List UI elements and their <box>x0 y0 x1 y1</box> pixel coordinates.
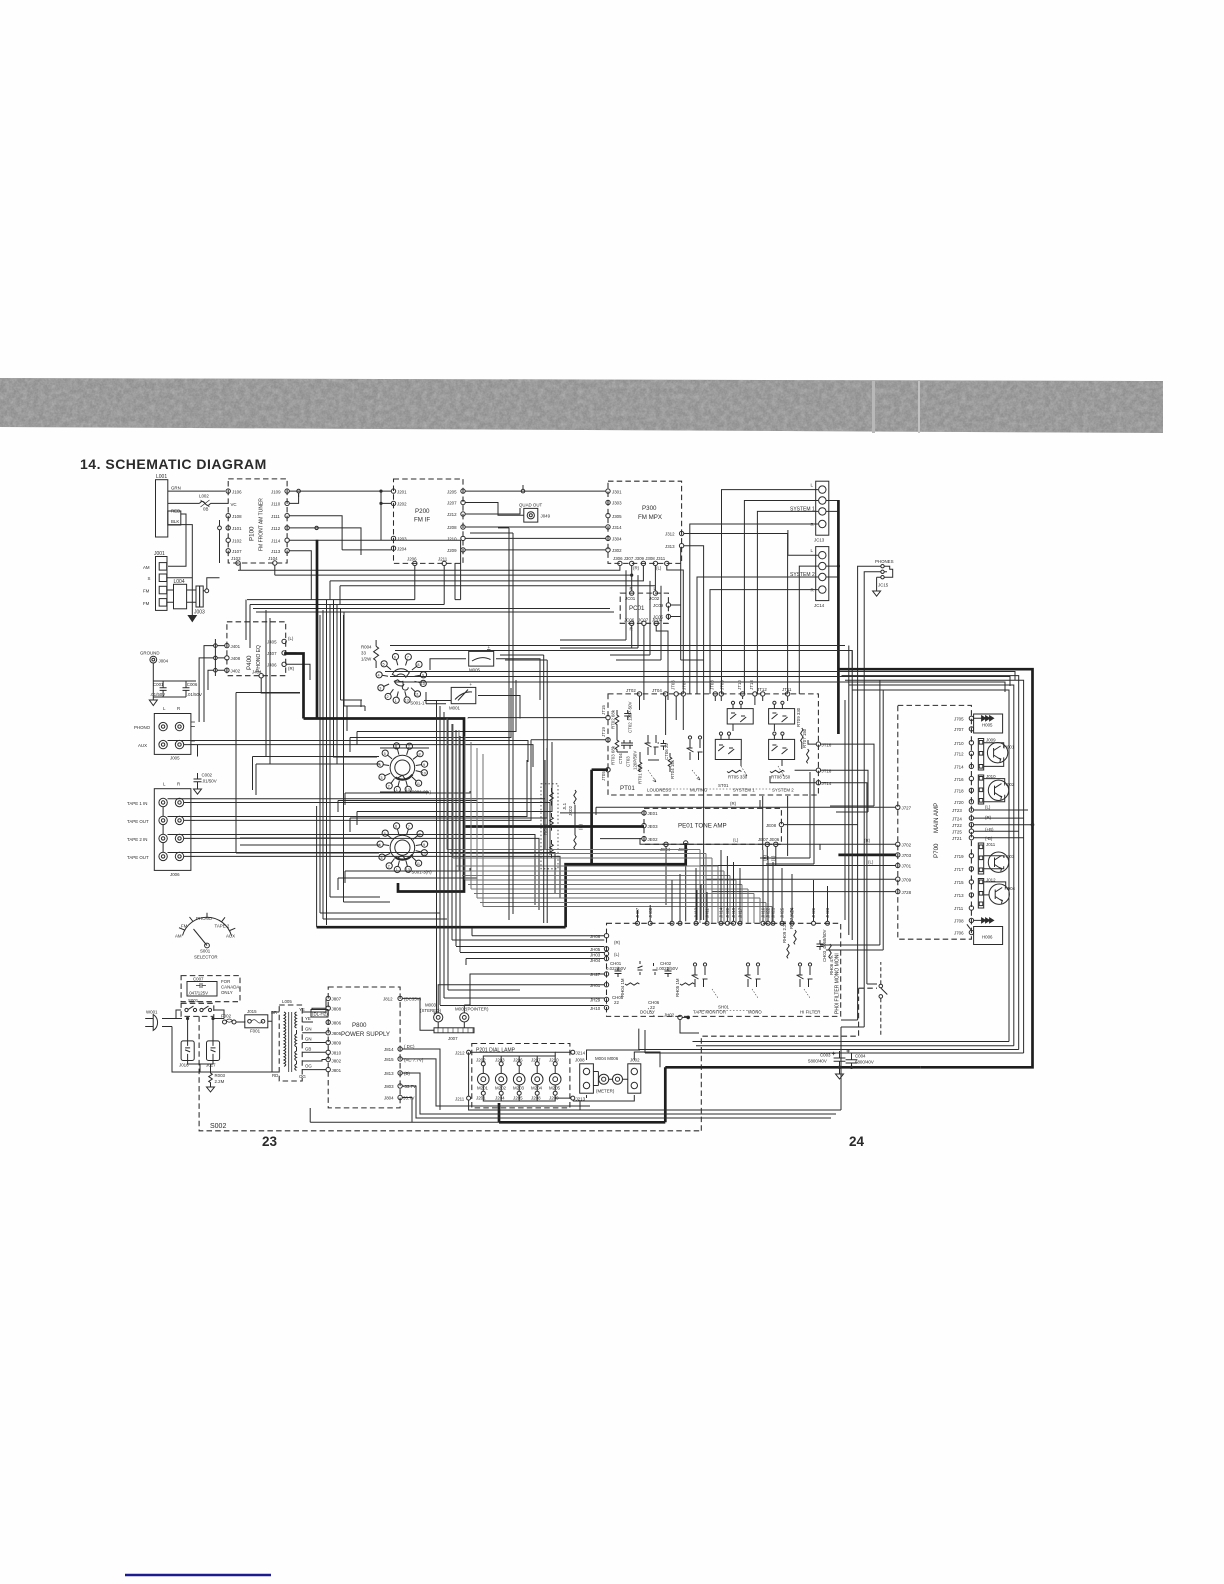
muting switch <box>687 736 703 780</box>
svg-text:J815: J815 <box>384 1057 394 1062</box>
connector strip J007 <box>402 998 474 1041</box>
P800 right pins <box>383 996 424 1100</box>
svg-text:23: 23 <box>262 1134 278 1149</box>
svg-text:8: 8 <box>417 663 419 667</box>
svg-text:JT23: JT23 <box>952 808 962 813</box>
svg-text:LOUDNESS: LOUDNESS <box>647 788 671 793</box>
svg-text:J804: J804 <box>384 1096 394 1101</box>
svg-text:AUX: AUX <box>226 934 235 939</box>
svg-text:J306 J307 J309 J308 J311: J306 J307 J309 J308 J311 <box>613 556 666 561</box>
svg-text:J103: J103 <box>231 556 241 561</box>
svg-text:JH20: JH20 <box>725 907 730 918</box>
resistor R003 <box>207 1069 226 1092</box>
thick wire F <box>592 770 608 865</box>
svg-text:RT02 68k: RT02 68k <box>611 709 616 729</box>
svg-text:J206: J206 <box>513 1058 523 1063</box>
svg-text:(DC35V): (DC35V) <box>404 997 422 1002</box>
svg-text:.0022/50V: .0022/50V <box>658 966 678 971</box>
svg-text:J104: J104 <box>268 556 278 561</box>
svg-text:JH08: JH08 <box>648 907 653 918</box>
svg-text:MAIN AMP: MAIN AMP <box>933 803 940 833</box>
svg-text:J011: J011 <box>986 842 996 847</box>
svg-text:JT10: JT10 <box>737 680 742 690</box>
svg-text:M201: M201 <box>477 1086 489 1091</box>
system wiring verticals <box>684 490 881 1027</box>
PT01 internal wires <box>617 696 816 783</box>
thick bottom run <box>499 1067 921 1122</box>
svg-text:(R): (R) <box>578 823 583 830</box>
svg-text:P100: P100 <box>249 526 256 541</box>
svg-text:JK02: JK02 <box>568 805 573 816</box>
svg-text:JE03: JE03 <box>648 824 659 829</box>
wires under P300 <box>238 548 704 700</box>
wire RED <box>168 509 186 567</box>
svg-text:PH0I FILTER MONO MONI: PH0I FILTER MONO MONI <box>835 953 841 1014</box>
svg-text:FM: FM <box>143 589 150 594</box>
svg-text:(L): (L) <box>656 565 662 570</box>
P100 right pins <box>271 489 289 554</box>
svg-text:PHONO: PHONO <box>134 725 151 730</box>
svg-text:J113: J113 <box>271 549 281 554</box>
svg-text:(METER): (METER) <box>596 1089 615 1094</box>
svg-text:H005: H005 <box>982 723 993 728</box>
stereo/pointer lamps <box>420 1003 489 1028</box>
svg-text:(L): (L) <box>985 805 991 810</box>
svg-text:J003: J003 <box>194 610 205 616</box>
SYSTEM 1 connector JC13 <box>790 481 829 542</box>
svg-text:RED: RED <box>171 509 180 514</box>
thick loop right <box>838 669 1032 1067</box>
svg-text:J201: J201 <box>397 489 407 494</box>
svg-text:POWER SUPPLY: POWER SUPPLY <box>341 1031 390 1038</box>
svg-text:JH07: JH07 <box>635 907 640 918</box>
svg-text:JT16: JT16 <box>822 742 832 747</box>
connector strip J012 <box>978 878 996 909</box>
svg-text:J728: J728 <box>902 890 912 895</box>
SYSTEM 2 connector JC14 <box>790 547 829 608</box>
svg-text:9: 9 <box>423 763 425 767</box>
svg-text:JH14: JH14 <box>719 907 724 918</box>
svg-text:10: 10 <box>422 851 426 855</box>
power transistor H004 <box>984 882 1016 905</box>
svg-text:10: 10 <box>422 771 426 775</box>
svg-text:JH27: JH27 <box>590 972 601 977</box>
svg-text:C006: C006 <box>187 682 198 687</box>
svg-text:J001: J001 <box>154 551 165 557</box>
power transistor H003 <box>984 852 1015 872</box>
svg-text:J210: J210 <box>447 537 457 542</box>
svg-text:11: 11 <box>416 782 420 786</box>
svg-text:L002: L002 <box>199 494 209 499</box>
svg-text:RT03 68k: RT03 68k <box>611 745 616 765</box>
extra verticals under P300 <box>560 570 661 660</box>
svg-text:JT04: JT04 <box>652 688 662 693</box>
svg-text:RH09 2.2M: RH09 2.2M <box>782 920 787 943</box>
svg-text:W001: W001 <box>146 1010 158 1015</box>
svg-text:33.7V: 33.7V <box>403 1096 415 1101</box>
misc joins above PH01 <box>682 646 883 1028</box>
svg-text:J709: J709 <box>902 877 912 882</box>
svg-text:JH19: JH19 <box>731 907 736 918</box>
svg-text:J005: J005 <box>170 756 180 761</box>
thick wire D <box>464 825 644 828</box>
svg-text:PHONO: PHONO <box>196 916 213 921</box>
svg-text:R: R <box>177 706 180 711</box>
svg-text:TAPE OUT: TAPE OUT <box>127 855 149 860</box>
svg-text:JT14: JT14 <box>822 781 832 786</box>
svg-text:J017: J017 <box>206 1063 216 1068</box>
connector strip J010 <box>978 774 996 804</box>
thick wire A <box>316 540 319 719</box>
svg-text:PHONES: PHONES <box>875 559 894 564</box>
svg-text:J705: J705 <box>954 717 964 722</box>
meter lamps M004 M006 <box>593 1056 627 1094</box>
svg-text:J802: J802 <box>332 1059 342 1064</box>
svg-text:J109: J109 <box>271 489 281 494</box>
PT01 right pins <box>816 742 832 786</box>
svg-text:L004: L004 <box>174 579 185 585</box>
connector J002 <box>573 1052 660 1101</box>
svg-text:J108: J108 <box>232 514 242 519</box>
svg-text:J208: J208 <box>531 1096 541 1101</box>
svg-text:J212: J212 <box>447 512 457 517</box>
svg-text:R003: R003 <box>215 1073 226 1078</box>
svg-text:JE07 JE06: JE07 JE06 <box>758 837 780 842</box>
svg-text:R004: R004 <box>361 645 372 650</box>
svg-text:L: L <box>163 782 166 787</box>
wires phono jacks to P400 <box>199 646 310 722</box>
svg-text:+: + <box>470 682 473 687</box>
dial lamps P201 <box>472 1044 570 1108</box>
dial lamp feed wires <box>402 1027 841 1122</box>
hi filter network <box>782 907 834 1014</box>
svg-text:JT18: JT18 <box>822 768 832 773</box>
svg-text:1/2W: 1/2W <box>361 657 372 662</box>
svg-text:JT07: JT07 <box>682 680 687 690</box>
svg-text:J707: J707 <box>954 727 964 732</box>
svg-text:SYSTEM 1: SYSTEM 1 <box>733 788 755 793</box>
svg-text:RD: RD <box>272 1073 278 1078</box>
svg-text:J008: J008 <box>575 1058 585 1063</box>
svg-text:P400: P400 <box>246 655 253 670</box>
PT01 box <box>608 694 818 795</box>
svg-text:J114: J114 <box>271 538 281 543</box>
svg-text:J202: J202 <box>476 1058 486 1063</box>
svg-text:(AC 7.7V): (AC 7.7V) <box>404 1058 424 1063</box>
svg-text:J803: J803 <box>384 1084 394 1089</box>
svg-text:11: 11 <box>416 862 420 866</box>
power switch S001 <box>181 998 214 1016</box>
svg-text:OG: OG <box>305 1064 312 1069</box>
svg-text:JH06: JH06 <box>590 934 601 939</box>
svg-text:J806: J806 <box>332 1021 342 1026</box>
svg-text:J810: J810 <box>332 1051 342 1056</box>
svg-text:JH01: JH01 <box>590 983 601 988</box>
AM/FM terminal board J001 <box>143 551 167 610</box>
svg-text:SYSTEM 2: SYSTEM 2 <box>772 788 794 793</box>
svg-text:C003: C003 <box>820 1053 831 1058</box>
svg-text:J205: J205 <box>447 489 457 494</box>
svg-text:J302: J302 <box>612 548 622 553</box>
svg-text:YE: YE <box>305 1016 311 1021</box>
svg-text:J015: J015 <box>247 1009 257 1014</box>
svg-text:C001: C001 <box>153 682 164 687</box>
svg-text:5: 5 <box>384 832 386 836</box>
svg-text:(-B): (-B) <box>985 836 993 841</box>
svg-text:JC07: JC07 <box>638 617 649 622</box>
P100 left pins <box>218 489 242 563</box>
svg-text:7: 7 <box>407 656 409 660</box>
svg-text:GN: GN <box>305 1027 312 1032</box>
svg-text:J212: J212 <box>455 1051 465 1056</box>
wire routing loops around selector wafers <box>236 600 552 925</box>
svg-text:CT06 22: CT06 22 <box>664 743 669 760</box>
headphone jack JC15 <box>873 559 894 596</box>
svg-text:C004: C004 <box>855 1054 866 1059</box>
P800 power supply box <box>328 987 400 1108</box>
thick wire E <box>317 843 686 927</box>
P100 bottom pins J103 J104 <box>231 556 278 565</box>
svg-text:GROUND: GROUND <box>140 651 160 656</box>
P700 left pins <box>864 805 912 895</box>
svg-text:J711: J711 <box>954 906 964 911</box>
svg-text:JT21: JT21 <box>952 836 962 841</box>
svg-text:33: 33 <box>361 651 366 656</box>
svg-text:J701: J701 <box>902 864 912 869</box>
svg-text:J101: J101 <box>232 526 242 531</box>
dolby network <box>606 961 694 1020</box>
scanned gray header band <box>0 378 1163 433</box>
svg-text:JT22: JT22 <box>952 823 962 828</box>
JH top edge pins <box>635 850 830 925</box>
svg-text:(R): (R) <box>730 801 737 806</box>
svg-text:J703: J703 <box>902 853 912 858</box>
svg-text:JH11: JH11 <box>705 908 710 918</box>
svg-text:J112: J112 <box>271 526 281 531</box>
fuse holder J015 / F001 <box>245 1009 268 1034</box>
svg-text:JE08: JE08 <box>766 823 777 828</box>
svg-text:JE02: JE02 <box>648 837 659 842</box>
svg-text:BLK: BLK <box>171 519 179 524</box>
svg-text:GB: GB <box>305 1046 311 1051</box>
svg-text:L001: L001 <box>156 474 167 480</box>
svg-text:JT11: JT11 <box>782 687 792 692</box>
svg-text:CANADA: CANADA <box>221 985 239 990</box>
svg-text:PHONO EQ: PHONO EQ <box>256 645 262 672</box>
AC plug W001 <box>145 1010 176 1031</box>
svg-text:M001: M001 <box>449 706 461 711</box>
long verticals from tuner rows <box>470 528 513 920</box>
svg-text:H006: H006 <box>982 935 993 940</box>
svg-text:(R): (R) <box>288 666 295 671</box>
svg-text:J007: J007 <box>448 1036 458 1041</box>
svg-text:(R): (R) <box>985 815 992 820</box>
svg-text:J304: J304 <box>612 537 622 542</box>
PT01 left feeds <box>468 718 606 765</box>
thick feeder system1/2 <box>837 500 840 734</box>
svg-text:J801: J801 <box>332 1068 342 1073</box>
svg-text:J710: J710 <box>954 741 964 746</box>
svg-text:J407: J407 <box>267 651 277 656</box>
capacitor C002 <box>194 745 217 795</box>
svg-text:MONO: MONO <box>748 1010 762 1015</box>
svg-text:J713: J713 <box>954 893 964 898</box>
svg-text:JL1: JL1 <box>562 802 567 810</box>
svg-text:C007: C007 <box>193 977 204 982</box>
svg-text:P800: P800 <box>352 1022 367 1029</box>
svg-text:M002(POINTER): M002(POINTER) <box>455 1007 489 1012</box>
svg-text:J408: J408 <box>231 656 241 661</box>
svg-text:10: 10 <box>421 682 425 686</box>
svg-text:JT06: JT06 <box>671 680 676 690</box>
selector dial S001 <box>175 913 235 960</box>
svg-text:L: L <box>811 548 814 553</box>
ground chassis J004 <box>140 651 169 706</box>
svg-text:JH02: JH02 <box>664 1013 675 1018</box>
svg-text:2.2M: 2.2M <box>215 1079 225 1084</box>
svg-text:RT05 330: RT05 330 <box>728 775 748 780</box>
svg-text:JT24: JT24 <box>952 816 962 821</box>
svg-text:J404: J404 <box>252 669 262 674</box>
svg-text:(R): (R) <box>614 940 621 945</box>
capacitors C001 C006 <box>150 681 202 697</box>
svg-text:2: 2 <box>387 695 389 699</box>
svg-text:J401: J401 <box>231 644 241 649</box>
svg-text:.01/50V: .01/50V <box>202 779 217 784</box>
svg-text:QUAD OUT: QUAD OUT <box>519 502 542 507</box>
svg-text:M003: M003 <box>425 1003 437 1008</box>
svg-text:JC09: JC09 <box>653 603 664 608</box>
svg-text:AM: AM <box>143 565 150 570</box>
svg-text:J717: J717 <box>954 867 964 872</box>
svg-text:J002: J002 <box>630 1058 640 1063</box>
svg-text:JH23: JH23 <box>825 907 830 918</box>
svg-text:6800/40V: 6800/40V <box>855 1060 874 1065</box>
power transistor H002 <box>984 779 1015 802</box>
svg-text:JT05: JT05 <box>601 771 606 781</box>
svg-text:9: 9 <box>423 843 425 847</box>
svg-text:3: 3 <box>379 687 381 691</box>
svg-text:J813: J813 <box>384 1071 394 1076</box>
svg-text:JH24: JH24 <box>790 907 795 918</box>
svg-text:.01/50V: .01/50V <box>187 692 202 697</box>
svg-text:P700: P700 <box>933 843 940 858</box>
svg-text:J313: J313 <box>665 544 675 549</box>
svg-text:J204: J204 <box>397 546 407 551</box>
PE01 box <box>644 808 781 844</box>
svg-text:JT13: JT13 <box>749 680 754 690</box>
svg-text:J714: J714 <box>954 765 964 770</box>
svg-text:(L): (L) <box>614 952 620 957</box>
svg-text:S001-3(R): S001-3(R) <box>411 870 432 875</box>
svg-text:DOLBY: DOLBY <box>640 1010 655 1015</box>
thick wire B <box>284 654 303 719</box>
svg-text:J006: J006 <box>170 872 180 877</box>
svg-text:J719: J719 <box>954 854 964 859</box>
svg-text:J110: J110 <box>271 502 281 507</box>
svg-text:JH05: JH05 <box>590 947 601 952</box>
svg-text:CT03: CT03 <box>626 756 631 767</box>
svg-text:FM: FM <box>143 601 150 606</box>
svg-text:JC02: JC02 <box>649 596 660 601</box>
svg-text:24: 24 <box>849 1134 865 1149</box>
svg-text:JC13: JC13 <box>814 538 825 543</box>
JT right side wires to main amp <box>763 744 877 984</box>
svg-text:J214: J214 <box>576 1051 586 1056</box>
PT01 top pins <box>626 680 792 696</box>
svg-text:JT09: JT09 <box>720 680 725 690</box>
power transformer L005 <box>271 999 306 1081</box>
svg-text:3: 3 <box>380 856 382 860</box>
svg-text:J206: J206 <box>407 556 417 561</box>
svg-text:-33.7V: -33.7V <box>403 1084 416 1089</box>
spark gaps J016 J017 <box>179 1041 220 1068</box>
filter caps C003/C004 <box>808 1049 874 1079</box>
C007 canada box <box>181 976 240 1002</box>
svg-text:J406: J406 <box>267 663 277 668</box>
svg-text:J049: J049 <box>541 514 551 519</box>
tuning meter M005 <box>469 645 494 673</box>
svg-text:J202: J202 <box>397 502 407 507</box>
svg-text:.047/125V: .047/125V <box>188 991 208 996</box>
svg-text:J207: J207 <box>531 1058 541 1063</box>
svg-text:R: R <box>177 782 180 787</box>
svg-text:J211: J211 <box>455 1096 465 1101</box>
tape panel J006 <box>127 782 195 878</box>
P700 right pins col <box>952 716 994 936</box>
wire YEL + coil L002 <box>168 494 237 512</box>
svg-text:J107: J107 <box>232 549 242 554</box>
svg-text:ST01: ST01 <box>718 783 729 788</box>
svg-text:J402: J402 <box>231 668 241 673</box>
svg-text:(L): (L) <box>733 838 739 843</box>
svg-text:PC01: PC01 <box>629 605 645 612</box>
P700 box <box>898 705 972 939</box>
svg-text:J314: J314 <box>612 525 622 530</box>
svg-text:J720: J720 <box>954 800 964 805</box>
bottom blue rule <box>125 1574 271 1576</box>
svg-text:F001: F001 <box>250 1029 261 1034</box>
svg-text:P200: P200 <box>415 508 430 515</box>
svg-text:S001: S001 <box>200 949 211 954</box>
RC01 resistor pack <box>541 784 583 869</box>
svg-text:J301: J301 <box>612 489 622 494</box>
aux + tape long feeds <box>163 741 560 911</box>
svg-text:MUTING: MUTING <box>690 788 708 793</box>
svg-text:AUX: AUX <box>138 743 147 748</box>
svg-text:JH21: JH21 <box>771 907 776 918</box>
connector J008 <box>575 1058 593 1094</box>
svg-text:JH17: JH17 <box>738 907 743 918</box>
svg-text:6: 6 <box>395 825 397 829</box>
left mid verticals <box>434 700 605 1013</box>
svg-text:J210: J210 <box>549 1058 559 1063</box>
P800 left pins <box>311 996 342 1073</box>
svg-text:J305: J305 <box>612 514 622 519</box>
svg-text:RT04 15k: RT04 15k <box>670 759 675 779</box>
svg-text:S001: S001 <box>188 998 199 1003</box>
wire GRN <box>168 486 225 492</box>
svg-text:JH25: JH25 <box>780 907 785 918</box>
svg-text:FM FRONT AM TUNER: FM FRONT AM TUNER <box>259 498 265 551</box>
svg-text:FM: FM <box>181 924 188 929</box>
power wiring <box>172 987 330 1072</box>
svg-text:JH03: JH03 <box>590 953 601 958</box>
svg-text:TAPE 2: TAPE 2 <box>215 924 230 929</box>
wires P200 to P300 <box>415 485 606 605</box>
svg-text:J203: J203 <box>495 1058 505 1063</box>
svg-text:JT25: JT25 <box>952 829 962 834</box>
